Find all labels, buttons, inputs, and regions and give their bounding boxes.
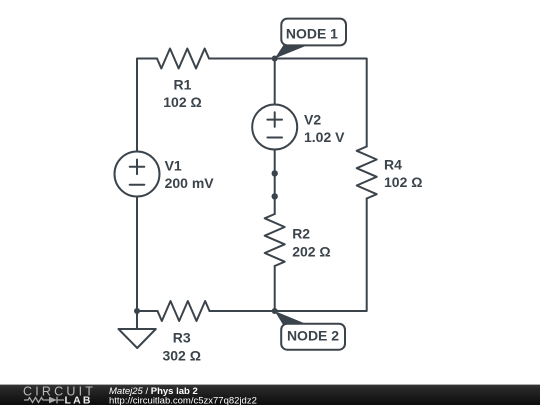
footer bar	[0, 385, 540, 405]
node NODE 2 flag	[275, 311, 345, 350]
footer title text	[109, 386, 257, 405]
svg-text:102 Ω: 102 Ω	[384, 174, 422, 190]
resistor R2	[265, 214, 285, 266]
label R2	[292, 226, 330, 260]
wire top-left corner	[137, 59, 157, 152]
logo resistor-diode squiggle	[24, 397, 64, 404]
svg-text:102 Ω: 102 Ω	[163, 94, 201, 110]
svg-text:LAB: LAB	[65, 395, 93, 405]
junction dot bottom-mid	[272, 308, 278, 314]
junction dot bottom-left	[134, 308, 140, 314]
label V2	[304, 112, 345, 145]
svg-text:R3: R3	[173, 329, 191, 345]
label R4	[384, 157, 422, 191]
wire bottom-left	[137, 197, 158, 312]
CircuitLab logo wordmark	[23, 384, 96, 405]
wire V2 to R2	[274, 150, 276, 215]
svg-text:R2: R2	[292, 226, 310, 242]
svg-text:1.02 V: 1.02 V	[304, 129, 345, 145]
ground	[136, 311, 138, 329]
wire R2 to node2	[274, 266, 276, 311]
wire node1 to V2	[274, 59, 276, 105]
svg-text:R1: R1	[174, 77, 192, 93]
resistor R1	[157, 49, 209, 69]
svg-text:NODE 1: NODE 1	[286, 26, 338, 42]
label R1	[163, 77, 201, 111]
junction dot mid 1	[272, 170, 278, 176]
wire bottom-right corner	[275, 199, 367, 312]
node A junction dot top	[272, 56, 278, 62]
svg-text:302 Ω: 302 Ω	[162, 348, 200, 364]
label V1	[165, 158, 215, 191]
svg-text:V1: V1	[165, 158, 182, 174]
resistor R4	[357, 147, 377, 199]
svg-text:200 mV: 200 mV	[165, 175, 215, 191]
node NODE 1 flag	[275, 19, 346, 59]
svg-text:R4: R4	[384, 157, 402, 173]
svg-text:NODE 2: NODE 2	[287, 327, 339, 343]
svg-text:202 Ω: 202 Ω	[292, 244, 330, 260]
label R3	[162, 329, 200, 363]
svg-text:http://circuitlab.com/c5zx77q8: http://circuitlab.com/c5zx77q82jdz2	[109, 395, 257, 405]
voltage source V2	[252, 105, 297, 150]
wire top-right	[209, 59, 367, 147]
wire bottom middle	[210, 310, 275, 312]
resistor R3	[158, 301, 210, 321]
voltage source V1	[115, 152, 160, 197]
svg-text:V2: V2	[304, 112, 321, 128]
junction dot mid 2	[272, 193, 278, 199]
